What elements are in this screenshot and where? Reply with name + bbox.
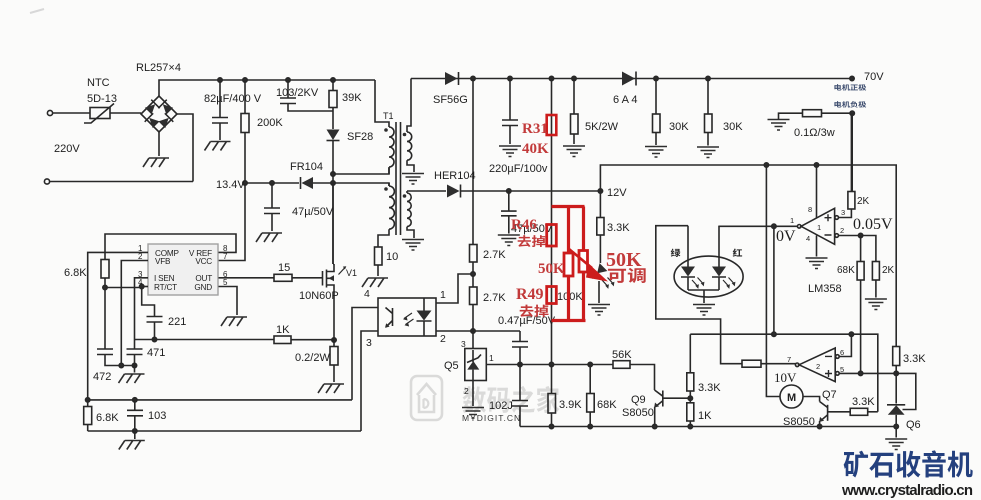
wire HER104 line	[407, 190, 446, 192]
resistor 3.3K right column	[893, 347, 900, 366]
resistor 30K first	[654, 76, 658, 80]
svg-text:0V: 0V	[776, 228, 796, 245]
Q5 pin numbers	[461, 339, 494, 396]
svg-text:Q9: Q9	[631, 394, 646, 406]
svg-text:HER104: HER104	[434, 170, 476, 182]
ground (chassis) IC	[221, 317, 247, 326]
resistor 10	[375, 247, 383, 265]
red box resistor R46	[547, 225, 557, 247]
opto pin4 wire	[352, 308, 378, 400]
capacitor 471	[127, 340, 143, 373]
svg-text:7: 7	[787, 355, 791, 364]
node AC input terminal top	[47, 110, 52, 115]
svg-text:5: 5	[223, 278, 228, 287]
T1 feedback winding (lower left)	[388, 183, 390, 186]
svg-text:70V: 70V	[864, 71, 884, 83]
resistor 2.7K lower	[470, 287, 478, 305]
svg-text:M: M	[787, 392, 796, 404]
resistor 3.3K green loop	[742, 360, 761, 367]
wire bridge top to rail	[159, 80, 375, 96]
capacitor 102J	[512, 365, 528, 427]
label motor minus	[834, 101, 866, 108]
resistor 68K bottom	[589, 365, 591, 394]
svg-text:1K: 1K	[698, 410, 712, 422]
svg-text:10N60P: 10N60P	[299, 290, 339, 302]
opto phototransistor	[386, 308, 393, 328]
red LED	[718, 226, 720, 267]
svg-text:4: 4	[138, 278, 143, 287]
svg-text:5D-13: 5D-13	[87, 93, 117, 105]
resistor 15	[274, 274, 292, 281]
svg-text:www.crystalradio.cn: www.crystalradio.cn	[841, 482, 973, 499]
pin5 wire	[836, 372, 840, 376]
resistor 6.8K upper	[101, 260, 109, 279]
transistor V1 10N60P mosfet	[322, 271, 324, 286]
svg-text:30K: 30K	[669, 121, 689, 133]
svg-text:2: 2	[464, 386, 469, 396]
ground (earth)	[499, 146, 521, 157]
rail op-amp supply	[600, 165, 896, 347]
svg-text:1K: 1K	[276, 324, 290, 336]
svg-text:103/2KV: 103/2KV	[276, 87, 319, 99]
bus wire lower 2	[88, 430, 361, 432]
capacitor 220uF/100v	[508, 76, 512, 80]
svg-text:30K: 30K	[723, 121, 743, 133]
IC pin numbers	[138, 244, 228, 287]
svg-text:Q7: Q7	[822, 389, 837, 401]
svg-text:6 A 4: 6 A 4	[613, 94, 637, 106]
wire ISEN line	[135, 339, 275, 341]
capacitor 103/2KV	[286, 78, 290, 82]
svg-text:GND: GND	[194, 283, 212, 292]
ground (earth) 2K	[865, 299, 887, 310]
svg-text:47µ/50V: 47µ/50V	[292, 206, 334, 218]
T1 primary winding	[375, 80, 389, 127]
svg-text:5K/2W: 5K/2W	[585, 121, 619, 133]
svg-text:1: 1	[489, 353, 494, 363]
wire Q5 top	[472, 331, 474, 349]
ground (earth)	[645, 147, 667, 158]
resistor 2K divider	[872, 262, 879, 281]
resistor 56K	[613, 361, 630, 369]
pin 5 GND wire	[219, 287, 238, 316]
optocoupler U2 box	[378, 298, 436, 336]
ground (earth) Q5	[462, 408, 484, 419]
svg-text:Q5: Q5	[444, 360, 459, 372]
svg-text:103: 103	[148, 410, 166, 422]
wire AC bottom	[50, 181, 193, 183]
diode SF28	[327, 130, 340, 141]
red arrow wiper	[569, 249, 592, 268]
svg-text:100K: 100K	[557, 291, 583, 303]
op-amp U3B LM358	[795, 363, 799, 367]
svg-text:1: 1	[790, 216, 794, 225]
IC U1 UC3842 PWM controller	[148, 244, 218, 295]
ground (earth) main secondary	[402, 240, 424, 251]
mosfet source to sense line	[333, 290, 335, 340]
ground (earth) indicator	[588, 305, 610, 316]
capacitor 103	[127, 400, 143, 431]
svg-text:RL257×4: RL257×4	[136, 62, 181, 74]
svg-text:10V: 10V	[774, 370, 797, 385]
pin 4 RT/CT wire	[142, 286, 148, 288]
regulator Q5 431	[465, 349, 487, 381]
resistor 68K divider	[860, 236, 862, 262]
opto pin3 wire	[361, 331, 378, 431]
svg-text:VCC: VCC	[195, 257, 212, 266]
red pot box A	[564, 253, 573, 276]
svg-text:40K: 40K	[522, 141, 549, 157]
diode FR104	[302, 177, 314, 189]
opto pin2 wire	[436, 330, 520, 332]
ground (chassis) 0.2/2W	[318, 384, 344, 393]
svg-text:3: 3	[366, 337, 372, 349]
resistor 5K/2W	[572, 76, 576, 80]
wire primary bottom	[333, 168, 389, 174]
ground (chassis) 471	[119, 374, 145, 383]
svg-text:2.7K: 2.7K	[483, 292, 506, 304]
svg-text:R31: R31	[522, 121, 548, 137]
svg-text:T1: T1	[383, 111, 394, 121]
diode SF56G	[445, 72, 458, 85]
wire top rail right	[411, 78, 852, 80]
ground (chassis) below 10	[362, 278, 388, 287]
svg-text:4: 4	[806, 234, 810, 243]
red box resistor R31	[547, 115, 557, 135]
node AC input terminal bottom	[44, 179, 49, 184]
T1 aux secondary winding (top right)	[407, 79, 411, 133]
opto pin numbers	[364, 288, 446, 349]
capacitor 82uF/400V	[218, 78, 222, 82]
wire	[53, 112, 85, 114]
pin 8 VREF wire	[105, 234, 236, 260]
svg-text:S8050: S8050	[783, 416, 815, 428]
ground (earth) op-amp A	[806, 258, 828, 269]
svg-text:10: 10	[386, 251, 398, 263]
opto pin1 wire	[436, 274, 473, 303]
svg-text:2K: 2K	[882, 265, 895, 276]
svg-text:3.3K: 3.3K	[903, 353, 926, 365]
watermark kuangshi shouyinji	[844, 450, 973, 477]
ground (earth)	[563, 146, 585, 157]
wire R31 branch (full vertical)	[549, 76, 553, 80]
ground (earth) Q6	[885, 439, 907, 450]
wire 0V feedback line	[773, 226, 775, 334]
pin8 wire	[816, 165, 818, 218]
pin 6 OUT wire	[219, 277, 275, 279]
transistor Q7 S8050	[827, 405, 829, 421]
svg-text:0.05V: 0.05V	[853, 216, 893, 233]
svg-text:SF56G: SF56G	[433, 94, 468, 106]
red box resistor R49	[547, 287, 557, 304]
node 70V output	[850, 76, 854, 80]
LED common ground wire	[688, 290, 719, 303]
svg-text:OUT: OUT	[195, 274, 212, 283]
svg-text:2: 2	[138, 252, 143, 261]
center watermark logo 数码之家	[411, 376, 442, 420]
ground (chassis) 103	[119, 441, 145, 450]
red jumper ladder annotation	[552, 207, 586, 321]
svg-text:2K: 2K	[857, 196, 870, 207]
resistor 200K	[243, 78, 247, 82]
resistor 1K below Q9	[689, 398, 691, 403]
top-left faint artifact	[30, 9, 44, 13]
ground (chassis) below bridge	[143, 158, 169, 167]
svg-text:102J: 102J	[489, 400, 513, 412]
wire VCC feed	[219, 183, 246, 261]
bus wire bottom right	[520, 426, 896, 428]
svg-text:3: 3	[461, 339, 466, 349]
svg-text:200K: 200K	[257, 117, 283, 129]
svg-text:SF28: SF28	[347, 131, 373, 143]
diode HER104	[447, 185, 460, 198]
thermistor NTC 5D-13	[90, 108, 110, 119]
svg-text:2: 2	[440, 333, 446, 345]
pin 2 VFB wire	[121, 261, 148, 366]
svg-text:R49: R49	[516, 286, 544, 303]
wire red LED to op-amp out	[719, 225, 798, 228]
label red	[733, 249, 742, 257]
label motor plus	[834, 84, 866, 91]
wire 6.8K to RT/CT	[105, 287, 142, 289]
op-amp pin numbers	[787, 205, 845, 374]
svg-text:6.8K: 6.8K	[96, 412, 119, 424]
svg-text:S8050: S8050	[622, 407, 654, 419]
bridge rectifier RL257x4	[141, 96, 177, 132]
svg-text:82µF/400 V: 82µF/400 V	[204, 93, 262, 105]
Q5 pin2 ground wire	[472, 381, 474, 407]
svg-text:NTC: NTC	[87, 77, 110, 89]
diode 6A4	[622, 72, 635, 86]
svg-text:15: 15	[278, 262, 290, 274]
ground	[205, 142, 231, 151]
pin4 ground wire	[816, 236, 818, 257]
Q5 pin1 wire	[486, 364, 613, 366]
svg-text:6: 6	[840, 348, 844, 357]
svg-text:471: 471	[147, 347, 165, 359]
svg-text:3: 3	[841, 208, 845, 217]
bus wire lower 1	[88, 399, 352, 401]
resistor 1K	[274, 336, 291, 344]
svg-text:2: 2	[816, 362, 820, 371]
svg-text:56K: 56K	[612, 349, 632, 361]
resistor 3.3K above Q9	[689, 391, 691, 398]
zener Q6	[896, 373, 916, 409]
svg-text:13.4V: 13.4V	[216, 179, 245, 191]
svg-text:FR104: FR104	[290, 161, 323, 173]
svg-text:I SEN: I SEN	[154, 274, 175, 283]
svg-text:8: 8	[808, 205, 812, 214]
T1 main secondary (lower right)	[406, 191, 408, 193]
wire 12V node	[598, 189, 602, 193]
motor M	[780, 385, 803, 408]
wire motor negative sense line	[851, 113, 853, 192]
resistor 2K sense	[848, 192, 855, 210]
svg-text:1: 1	[440, 289, 446, 301]
svg-text:68K: 68K	[597, 399, 617, 411]
capacitor 221	[147, 317, 163, 340]
svg-text:50K: 50K	[538, 261, 565, 277]
resistor 3.3K Q7 base	[850, 408, 868, 415]
wire SF28 to drain node	[332, 141, 334, 265]
transformer T1 core	[396, 122, 401, 235]
green LED	[687, 226, 689, 267]
svg-text:2: 2	[840, 226, 844, 235]
resistor 6.8K lower	[87, 400, 89, 407]
svg-text:472: 472	[93, 371, 111, 383]
svg-text:0.1Ω/3w: 0.1Ω/3w	[794, 127, 835, 139]
opto LED	[423, 298, 425, 311]
svg-text:12V: 12V	[607, 187, 627, 199]
svg-text:2.7K: 2.7K	[483, 249, 506, 261]
svg-text:V1: V1	[346, 268, 357, 278]
capacitor 47u/50V primary	[270, 181, 274, 185]
resistor 3.9K	[551, 365, 553, 394]
svg-text:R46: R46	[511, 217, 537, 233]
LED pair indicator circle	[674, 256, 743, 297]
resistor 0.1ohm/3w current sense	[768, 120, 790, 131]
capacitor 472	[97, 349, 135, 366]
svg-text:5: 5	[840, 365, 844, 374]
svg-text:Q6: Q6	[906, 419, 921, 431]
svg-text:VFB: VFB	[155, 257, 171, 266]
ground (earth) aux winding	[402, 174, 424, 185]
pin3 input wire	[835, 216, 839, 220]
ground (earth) 47u	[498, 235, 520, 246]
svg-text:68K: 68K	[837, 265, 855, 276]
pin 1 COMP wire	[88, 252, 148, 400]
pin2 input wire	[835, 234, 839, 238]
wire bridge right leg	[177, 114, 193, 182]
svg-text:39K: 39K	[342, 92, 362, 104]
resistor 0.2/2W	[333, 340, 335, 347]
capacitor 47u/50V secondary	[507, 189, 511, 193]
svg-text:LM358: LM358	[808, 283, 842, 295]
pin 3 ISEN wire	[135, 278, 149, 340]
wire bridge bottom to ground	[158, 132, 160, 156]
svg-text:221: 221	[168, 316, 186, 328]
svg-text:RT/CT: RT/CT	[154, 283, 177, 292]
svg-text:220µF/100v: 220µF/100v	[489, 163, 548, 175]
resistor 39K	[331, 78, 335, 82]
op-amp U3A LM358	[797, 225, 801, 229]
pin6 wire	[836, 355, 840, 359]
LED adjustable indicator (diagonal)	[588, 263, 608, 283]
svg-text:220V: 220V	[54, 143, 80, 155]
svg-text:7: 7	[223, 252, 228, 261]
transistor Q9 S8050	[662, 391, 664, 407]
svg-text:6.8K: 6.8K	[64, 267, 87, 279]
resistor 3.3K indicator	[599, 191, 601, 218]
svg-text:3.3K: 3.3K	[698, 382, 721, 394]
svg-text:50K: 50K	[606, 249, 642, 271]
svg-text:4: 4	[364, 288, 370, 300]
svg-text:3.3K: 3.3K	[852, 396, 875, 408]
watermark text shuma zhijia	[463, 386, 560, 413]
svg-text:3.3K: 3.3K	[607, 222, 630, 234]
ground (earth) LED	[693, 305, 715, 316]
capacitor 0.47uF/50V	[512, 331, 528, 365]
svg-text:0.2/2W: 0.2/2W	[295, 352, 330, 364]
svg-text:0.47µF/50V: 0.47µF/50V	[498, 315, 556, 327]
svg-text:1: 1	[817, 223, 821, 232]
IC pin names	[154, 249, 212, 292]
resistor 2.7K upper	[471, 76, 475, 80]
wire green LED loop	[656, 226, 742, 364]
red pot box B	[579, 251, 588, 273]
label green	[671, 249, 681, 257]
resistor 30K second	[706, 76, 710, 80]
ground (earth)	[697, 147, 719, 158]
wire 13.4V rail	[245, 182, 299, 184]
svg-text:3.9K: 3.9K	[559, 399, 582, 411]
